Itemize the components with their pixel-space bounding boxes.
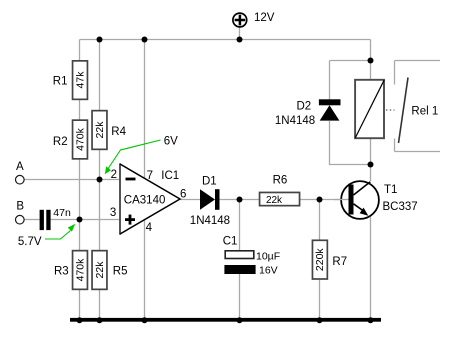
svg-text:47n: 47n	[53, 207, 71, 219]
power +12V	[233, 12, 275, 40]
wire +12V top rail	[80, 39, 371, 41]
svg-text:T1: T1	[384, 184, 397, 196]
node ground pin4	[142, 317, 148, 323]
wire emitter to ground	[370, 217, 372, 319]
wire D1 to R6	[220, 199, 260, 201]
resistor R1 47k	[53, 61, 88, 100]
svg-text:470k: 470k	[75, 127, 87, 151]
wire rail corner to relay node	[370, 40, 372, 61]
svg-text:6: 6	[180, 189, 186, 201]
svg-text:D2: D2	[297, 101, 312, 113]
svg-text:C1: C1	[223, 236, 238, 248]
svg-text:12V: 12V	[254, 12, 275, 24]
wire R5 to ground	[99, 289, 101, 319]
capacitor C2 47n	[40, 207, 71, 230]
diode D1 1N4148	[190, 176, 230, 228]
op-amp IC1 CA3140	[120, 163, 180, 234]
svg-text:4: 4	[146, 222, 153, 234]
svg-text:R7: R7	[332, 256, 347, 268]
wire C1 to ground	[239, 274, 241, 319]
wire R4 to pin2 node	[99, 148, 101, 180]
resistor R7 220k	[312, 240, 347, 279]
node ground R5	[97, 317, 103, 323]
diode D2 1N4148	[275, 99, 341, 127]
resistor R5 22k	[92, 251, 127, 290]
node ground C1	[237, 317, 243, 323]
node rail R4	[97, 37, 103, 43]
svg-text:R6: R6	[273, 175, 288, 187]
node R6 R7 base	[317, 197, 323, 203]
wire node to R7	[319, 200, 321, 241]
dotted link coil to contact	[386, 109, 395, 111]
wire R2 to node and R3	[79, 158, 81, 251]
svg-text:6V: 6V	[164, 136, 178, 148]
wire input A to pin2	[25, 179, 121, 181]
svg-text:R4: R4	[111, 126, 126, 138]
wire input B to C2	[25, 219, 40, 221]
svg-text:Rel 1: Rel 1	[411, 106, 438, 118]
svg-text:BC337: BC337	[383, 201, 418, 213]
svg-text:220k: 220k	[314, 248, 326, 272]
node ground R7	[317, 317, 323, 323]
resistor R6 22k	[260, 175, 300, 206]
wire R3 to ground	[79, 289, 81, 319]
svg-text:R3: R3	[54, 266, 69, 278]
wire coil bottom to node	[370, 139, 372, 165]
svg-text:R5: R5	[113, 266, 128, 278]
relay contact blade	[399, 78, 409, 144]
input terminal B	[15, 201, 24, 225]
svg-text:D1: D1	[202, 176, 217, 188]
wire contact top	[395, 61, 441, 85]
wire relay node to D2 cathode	[330, 61, 371, 101]
wire pin2 node to R5	[99, 180, 101, 252]
capacitor C1 electrolytic	[223, 236, 280, 277]
wire R7 to ground	[319, 280, 321, 319]
svg-text:2: 2	[111, 169, 117, 181]
wire D2 anode to lower node	[330, 121, 371, 165]
node pin2	[97, 177, 103, 183]
node rail 12V	[237, 37, 243, 43]
wire node to collector	[370, 165, 372, 182]
node ground R3	[77, 317, 83, 323]
wire contact bottom	[395, 139, 441, 152]
relay coil Rel 1	[355, 80, 384, 138]
resistor R3 470k	[54, 251, 87, 290]
node rail pin7	[142, 37, 148, 43]
wire pin4 to ground	[144, 219, 146, 319]
svg-text:1N4148: 1N4148	[275, 115, 315, 127]
wire R1 to R2	[79, 99, 81, 121]
ground rail	[70, 318, 381, 322]
svg-text:10µF: 10µF	[256, 251, 280, 263]
svg-text:5.7V: 5.7V	[18, 236, 42, 248]
wire relay node to coil top	[370, 61, 372, 80]
node relay bottom collector	[368, 162, 374, 168]
svg-text:B: B	[16, 201, 24, 213]
svg-text:R2: R2	[53, 136, 68, 148]
node relay top	[368, 58, 374, 64]
svg-text:22k: 22k	[94, 121, 106, 139]
svg-text:A: A	[16, 161, 24, 173]
wire pin6 to D1	[180, 199, 200, 201]
node D1 R6 C1	[237, 197, 243, 203]
svg-text:470k: 470k	[75, 258, 87, 282]
wire node to C1	[239, 200, 241, 252]
node ground emitter	[368, 317, 374, 323]
transistor T1 BC337	[334, 181, 418, 219]
svg-text:22k: 22k	[266, 195, 283, 206]
svg-text:22k: 22k	[94, 261, 106, 279]
svg-text:16V: 16V	[259, 265, 278, 277]
svg-text:3: 3	[110, 207, 116, 219]
svg-text:CA3140: CA3140	[124, 195, 166, 207]
resistor R2 470k	[53, 120, 88, 159]
wire rail to R4	[99, 40, 101, 112]
svg-text:1N4148: 1N4148	[190, 215, 230, 227]
node pin3 B	[77, 217, 83, 223]
wire pin7	[144, 40, 146, 181]
svg-text:7: 7	[147, 170, 153, 182]
svg-text:R1: R1	[53, 75, 68, 87]
svg-text:47k: 47k	[75, 71, 87, 89]
annotation 5.7V	[18, 224, 75, 248]
wire rail to R1	[79, 40, 81, 62]
svg-text:IC1: IC1	[161, 170, 179, 182]
resistor R4 22k	[92, 111, 127, 150]
wire R6 to base	[300, 199, 349, 201]
input terminal A	[15, 161, 24, 184]
wire C2 to pin3	[51, 219, 120, 221]
annotation 6V	[105, 136, 178, 175]
